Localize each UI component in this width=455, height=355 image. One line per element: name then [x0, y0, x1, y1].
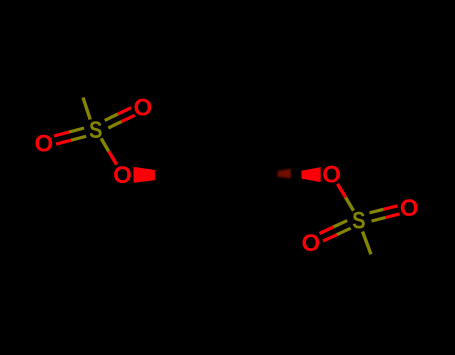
wire S2-O ester single bond line 1 O-half: [338, 184, 346, 197]
svg-text:O: O: [301, 230, 320, 257]
wire S2=O double bond lower-left line 2 O-half: [320, 227, 334, 234]
wire stereo bold wedge C4-O (visible O-side half): [301, 167, 320, 182]
wire stereo bold wedge C1-O (visible O-side half): [134, 167, 155, 183]
wire S1=O double bond upper-right line 1 O-half: [118, 108, 131, 114]
wire S2=O double bond lower-left line 2 S-half: [333, 221, 347, 227]
wire S1=O double bond left line 1 O-half: [56, 140, 71, 144]
wire S1=O double bond left line 1 S-half: [71, 136, 86, 140]
svg-text:O: O: [113, 162, 132, 189]
wire S2=O double bond lower-left line 1 S-half: [337, 228, 351, 235]
wire S1-O ester single bond line 1 S-half: [101, 138, 109, 151]
wire S1=O double bond left line 2 S-half: [69, 128, 84, 132]
svg-text:O: O: [34, 131, 53, 158]
wire S1-O ester single bond line 1 O-half: [109, 152, 117, 165]
wire S1=O double bond left line 2 O-half: [54, 132, 69, 136]
svg-text:S: S: [89, 116, 102, 143]
wire S1=O double bond upper-right line 2 O-half: [122, 115, 135, 121]
wire methyl C-S bond stub (group 2): [363, 232, 372, 255]
wire faint carbon-side remnant of wedge at ring C4: [278, 169, 292, 179]
wire S2=O double bond right line 2 O-half: [386, 214, 400, 218]
wire S2=O double bond right line 1 S-half: [370, 209, 384, 213]
svg-text:S: S: [352, 207, 365, 234]
wire S2=O double bond right line 2 S-half: [372, 218, 386, 222]
wire S1=O double bond upper-right line 1 S-half: [105, 114, 118, 120]
wire S1=O double bond upper-right line 2 S-half: [108, 122, 121, 128]
wire S2=O double bond right line 1 O-half: [384, 206, 398, 210]
wire S2=O double bond lower-left line 1 O-half: [323, 235, 337, 241]
svg-text:O: O: [322, 162, 341, 189]
svg-text:O: O: [133, 94, 152, 121]
wire S2-O ester single bond line 1 S-half: [346, 197, 354, 211]
svg-text:O: O: [400, 195, 419, 222]
wire methyl C-S bond stub (group 1): [83, 98, 90, 120]
